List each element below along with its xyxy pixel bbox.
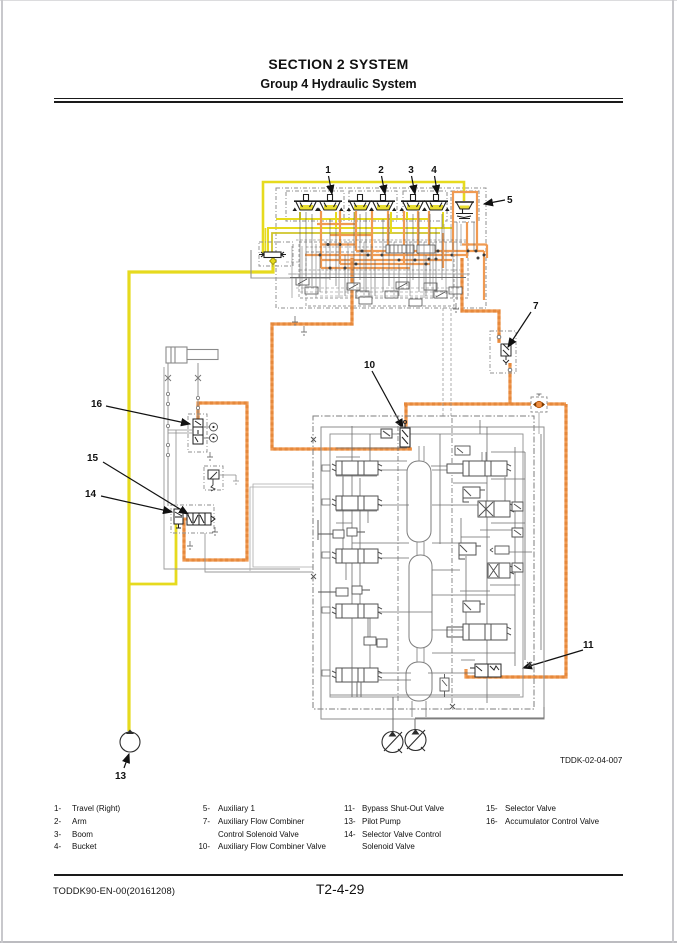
double rule under title	[54, 98, 623, 99]
accumulator circles	[203, 423, 218, 442]
wire orange rung y224	[317, 223, 357, 225]
main spool L3	[332, 549, 382, 563]
left spool side tabs	[322, 465, 330, 676]
legend col4 text	[505, 803, 599, 829]
pilot group box 3	[403, 191, 447, 221]
svg-text:13: 13	[115, 771, 127, 782]
page edge left	[1, 0, 3, 943]
svg-text:10: 10	[364, 360, 376, 371]
left assembly frame	[164, 367, 300, 569]
wire yellow bus 4	[276, 218, 430, 220]
main spool R1	[447, 461, 511, 476]
main spool R2	[478, 501, 514, 517]
pilot pump 13	[120, 730, 140, 753]
pilot group box 5	[451, 191, 479, 222]
svg-text:3: 3	[408, 165, 414, 176]
legend	[0, 0, 1, 1]
wire orange valve5 left leg	[453, 192, 477, 252]
accumulator control valve 16 box	[188, 414, 207, 452]
page edge top	[0, 0, 677, 1]
wire orange drop v3	[355, 211, 357, 251]
svg-text:5: 5	[507, 195, 513, 206]
wire orange accumulator loop	[184, 403, 247, 560]
port dots left line	[166, 392, 199, 456]
subtitle	[0, 77, 677, 91]
main spool L5	[332, 668, 382, 682]
callout 16	[91, 399, 190, 424]
svg-text:11: 11	[583, 640, 594, 651]
control valve outer dash-dot box	[313, 416, 534, 709]
cylinder body	[166, 347, 218, 363]
wire orange drop right pair	[466, 222, 468, 258]
legend col2 text	[218, 803, 326, 854]
main pump 1	[382, 731, 403, 753]
wire orange solenoid7 to manifold	[508, 363, 511, 404]
control valve solid frame A	[321, 427, 544, 719]
footer rule	[54, 874, 623, 876]
wire orange rung y268	[321, 267, 410, 269]
legend col2 nums	[188, 803, 210, 854]
wire orange drop v6	[403, 211, 405, 264]
footer page number	[316, 882, 364, 897]
page edge right	[672, 0, 674, 943]
pilot valve 2 arm	[370, 195, 397, 212]
wire orange drop v2	[339, 211, 341, 264]
wire orange drop v7	[417, 211, 419, 255]
cluster outer dashed box	[276, 188, 486, 308]
small top rect	[455, 446, 470, 455]
wire orange rung y244b	[462, 245, 487, 259]
small left-mid valves	[318, 520, 387, 647]
main spool L1	[332, 461, 382, 475]
callout 5	[484, 195, 513, 206]
orange dark dash overlays	[184, 256, 566, 677]
relief valve unit (between 16 and 14)	[204, 466, 239, 491]
legend col3 text	[362, 803, 444, 854]
main spool L2	[332, 496, 382, 510]
pilot drop dashed b	[450, 308, 452, 416]
pilot group box 2	[349, 191, 397, 221]
yellow stubs under pilot valves	[300, 212, 443, 233]
main pump 2	[405, 729, 426, 751]
legend col1 text	[72, 803, 120, 854]
wire yellow bus 3	[272, 233, 440, 253]
selector valve control solenoid 14	[174, 509, 183, 528]
callout 14	[85, 489, 172, 512]
accumulator control valve 16 spool	[193, 419, 203, 444]
yellow under-cap patches	[300, 205, 470, 210]
wire orange manifold top run	[404, 402, 566, 405]
frame inner line	[176, 430, 313, 572]
svg-text:2: 2	[378, 165, 384, 176]
page edge bottom	[0, 941, 677, 943]
center bypass gallery 3	[406, 662, 432, 701]
footer doc number	[53, 886, 175, 896]
pilot check marks	[165, 375, 201, 381]
drain symbol b	[301, 326, 307, 335]
closed port marks	[311, 437, 532, 709]
port dots on orange rungs	[319, 243, 486, 270]
center bypass gallery 1	[407, 461, 431, 542]
feed lines into valve 16	[168, 430, 193, 433]
drain symbol c	[453, 303, 459, 312]
solenoid 7 valve	[497, 335, 512, 372]
center bypass gallery 2	[409, 555, 432, 648]
pilot valve 2a	[347, 195, 374, 212]
control valve solid frame B	[330, 434, 523, 697]
svg-text:1: 1	[325, 165, 331, 176]
yellow diamond junction	[270, 258, 277, 265]
wire orange rung y244	[320, 243, 356, 245]
pilot valve 1a	[293, 195, 320, 212]
pilot valve 1 travel right	[317, 195, 344, 212]
aux solenoid R2a	[463, 487, 485, 502]
aux small valve R5	[490, 546, 509, 554]
wire orange drop v9	[442, 233, 444, 268]
dense area thin verticals	[286, 224, 468, 298]
reducing valve R3a	[459, 543, 481, 559]
wire yellow pilot feed main (to pump 13)	[129, 258, 273, 731]
main spool R4	[447, 624, 511, 640]
block bottom ports	[352, 668, 544, 731]
wire yellow bus 2	[268, 228, 452, 253]
figure number	[560, 756, 622, 765]
dense area valve port drop lines	[296, 212, 474, 300]
wire orange rung y260	[320, 259, 452, 261]
svg-text:14: 14	[85, 489, 97, 500]
pilot drop dashed a	[442, 308, 444, 416]
callout 2	[378, 165, 385, 194]
dense area small valves	[296, 245, 462, 306]
pilot lines to main valve	[250, 484, 313, 571]
wire orange right side loop	[466, 404, 566, 677]
legend col1 nums	[54, 803, 61, 854]
wire yellow bus extra vertical	[265, 228, 267, 253]
gallery connectors	[412, 446, 426, 717]
svg-text:15: 15	[87, 453, 99, 464]
callout 7	[508, 301, 539, 347]
title	[0, 56, 677, 72]
combiner valve 10	[381, 421, 410, 448]
left pressure reducing unit frame	[251, 250, 330, 278]
callout 15	[87, 453, 188, 514]
svg-text:4: 4	[431, 165, 437, 176]
wire orange stub selector	[177, 518, 192, 521]
drain symbol a	[292, 316, 298, 325]
wire orange drop v8	[428, 211, 430, 251]
wire orange rung y235	[330, 234, 372, 236]
wire orange drop to combiner valve 10	[404, 404, 407, 429]
grey return line under cluster	[251, 274, 470, 278]
wire yellow branch to selector valve	[129, 524, 176, 584]
left reducing valve spool	[259, 252, 286, 258]
check unit on manifold line	[531, 394, 547, 412]
legend col3 nums	[344, 803, 356, 841]
pilot valve 4 bucket	[423, 195, 450, 212]
main spool L4	[332, 604, 382, 618]
callout 11	[523, 640, 594, 668]
internal grid lines	[330, 420, 541, 703]
wire orange drop v5	[387, 211, 389, 251]
pilot valve 3 boom	[400, 195, 427, 212]
callout 13	[115, 754, 129, 782]
wire orange to solenoid 7	[462, 258, 499, 343]
solenoid R4a	[463, 601, 485, 612]
check unit drop	[538, 412, 540, 434]
wire orange drop v1	[320, 211, 322, 268]
callout 1	[325, 165, 332, 194]
wire orange drop v4	[371, 211, 373, 260]
callout 10	[364, 360, 403, 428]
drain below 16	[207, 452, 213, 460]
wire orange right edge leg	[483, 251, 485, 300]
side relief R2b	[512, 502, 523, 537]
wire orange rung y251	[356, 250, 484, 252]
main spool R3	[488, 563, 514, 578]
drains below selector	[187, 527, 218, 549]
wire orange feed to left selector loop	[272, 258, 412, 449]
pilot valve symbols (reduce valves with T cap)	[293, 195, 475, 219]
svg-text:16: 16	[91, 399, 103, 410]
cluster inner dashed box A	[299, 242, 468, 298]
bypass shut-out valve 11	[470, 664, 501, 677]
pilot group box 1	[286, 191, 344, 221]
callout 4	[431, 165, 437, 194]
selector valve 15 spool	[187, 513, 215, 525]
wire orange rung y264	[340, 263, 430, 265]
cylinder port line right	[197, 363, 199, 418]
svg-text:7: 7	[533, 301, 539, 312]
legend col4 nums	[486, 803, 498, 829]
cluster inner dashed box B	[306, 252, 454, 306]
callout 3	[408, 165, 415, 194]
small bottom valve	[440, 674, 449, 697]
cylinder port line left	[167, 363, 169, 506]
left pressure reducing unit dashed box	[259, 242, 293, 266]
side relief R3b	[512, 563, 523, 572]
block center dash-dot axis	[398, 416, 452, 706]
solenoid 7 dashed box	[490, 331, 516, 373]
selector valve assembly box 14/15	[171, 505, 214, 533]
wire orange rung y255	[305, 254, 468, 256]
wire yellow top bus	[263, 182, 464, 253]
pilot valve 5 auxiliary1	[455, 202, 474, 219]
